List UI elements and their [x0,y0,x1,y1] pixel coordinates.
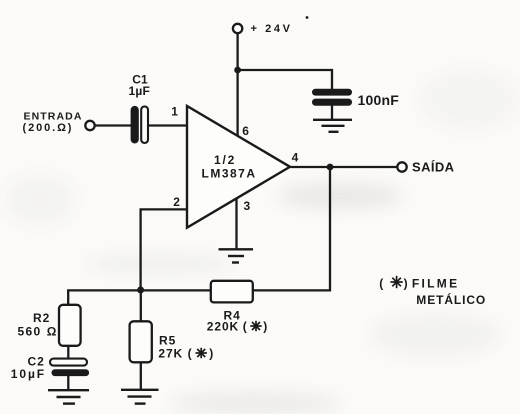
label 10uF [11,367,46,381]
wire pin 4 to SAIDA [290,166,397,168]
note FILME line 1 [379,276,459,290]
wire feedback node to R2 [68,290,140,305]
wire R4 to feedback node [141,289,211,291]
svg-text:(: ( [188,346,192,360]
resistor R4 [211,281,253,303]
pin 2 label [173,195,180,209]
label C1 [132,72,148,86]
resistor R2 [59,305,81,346]
svg-text:1: 1 [171,105,178,119]
svg-text:2: 2 [173,195,180,209]
label 1/2 [214,153,236,167]
label SAIDA [412,160,455,175]
svg-text:): ) [404,276,408,290]
op-amp U1 1/2 LM387A [187,106,290,228]
wire pin 3 to ground [235,199,237,249]
svg-text:1/2: 1/2 [214,153,236,167]
terminal +24V [233,24,242,33]
label ENTRADA [24,110,83,122]
svg-text:FILME: FILME [412,276,460,290]
svg-text:METÁLICO: METÁLICO [416,292,486,307]
label R2 [33,311,50,325]
label R4 [224,308,241,322]
svg-text:27K: 27K [158,346,183,360]
svg-text:R2: R2 [33,311,50,325]
wire R5 to ground [140,362,142,389]
svg-text:): ) [263,319,267,333]
terminal ENTRADA [85,121,94,130]
capacitor C2 [50,359,89,376]
capacitor 100nF plates [312,89,352,106]
resistor R5 [130,321,152,362]
junction supply node [234,67,241,74]
label 100nF [358,92,400,108]
wire input to C1 [95,124,131,126]
label LM387A [202,166,257,180]
wire 100nF to ground [331,106,333,120]
svg-text:LM387A: LM387A [202,166,257,180]
svg-text:6: 6 [242,124,249,138]
pin 4 label [292,151,299,165]
label 1uF [129,84,151,98]
svg-text:Ω: Ω [47,325,57,339]
label (200 ohm) [23,122,74,134]
wire R2 to C2 [67,346,69,359]
junction output node [327,164,334,171]
wire supply vertical to pin 6 [236,33,238,137]
pin 6 label [242,124,249,138]
label 27K [158,346,213,360]
pin 3 label [244,199,251,213]
terminal SAIDA [397,162,406,171]
ground at 100nF [313,120,352,132]
svg-text:100nF: 100nF [358,92,400,108]
svg-text:4: 4 [292,151,299,165]
svg-text:R5: R5 [159,333,176,347]
svg-text:10µF: 10µF [11,367,46,381]
junction feedback node [137,287,144,294]
pin 1 label [171,105,178,119]
star R5 [196,348,207,358]
svg-text:ENTRADA: ENTRADA [24,110,83,122]
label 220K [207,319,268,333]
star R4 [250,321,261,331]
svg-text:220K: 220K [207,319,239,333]
ground at C2 [48,390,89,403]
svg-text:1µF: 1µF [129,84,151,98]
note METALICO line 2 [416,292,486,307]
svg-text:): ) [209,346,213,360]
speck [306,16,309,19]
label 560 ohm [18,325,57,339]
svg-text:(: ( [379,276,383,290]
svg-text:560: 560 [18,325,42,339]
label R5 [159,333,176,347]
svg-text:(: ( [243,319,247,333]
capacitor C1 [131,106,148,144]
wire supply node to 100nF [238,70,332,90]
label C2 [28,355,45,369]
ground at R5 [121,390,159,404]
svg-text:+ 24V: + 24V [251,23,293,35]
wire C2 to ground [67,376,69,390]
svg-text:(200.Ω): (200.Ω) [23,122,74,134]
svg-text:SAÍDA: SAÍDA [412,160,455,175]
wire output node down to R4 [253,167,330,290]
star note [390,276,402,288]
svg-text:3: 3 [244,199,251,213]
wire pin 2 to feedback node [141,209,186,290]
ground at pin 3 [219,249,254,262]
wire feedback node to R5 [140,290,142,321]
label +24V [251,23,293,35]
wire C1 to pin 1 [148,124,187,126]
